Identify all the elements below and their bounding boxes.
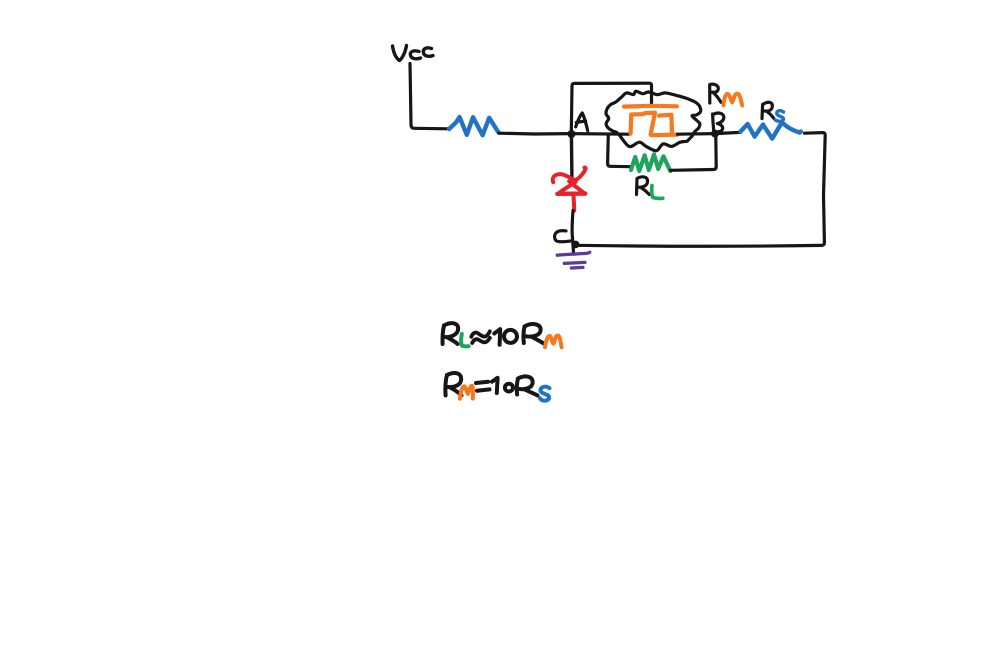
annotation formula line 2: RM = 10 RS — [445, 373, 549, 401]
wire node A up, across top, and down into memristor package — [571, 83, 651, 133]
formula2 S (blue subscript) — [540, 387, 550, 401]
zener diode (red) triangle base — [557, 191, 585, 196]
wire lower loop left (from main wire down to RL) — [608, 135, 631, 167]
formula1 L (green subscript) — [461, 334, 468, 346]
formula1 digit 0 — [503, 329, 517, 343]
node C junction dot — [572, 241, 580, 249]
memristor RM symbol (orange square-wave element) — [624, 106, 677, 135]
node B junction dot — [711, 130, 719, 138]
label RM (M orange subscript) — [724, 94, 743, 106]
formula1 R (black) — [523, 324, 543, 343]
wire zener to node C — [572, 211, 574, 255]
formula2 R (black) — [517, 376, 538, 395]
wire node A down to zener — [570, 134, 574, 177]
power label Vcc — [393, 46, 434, 61]
zener diode (red) anode lead — [572, 195, 577, 211]
wire memristor to node B to RS — [678, 132, 741, 134]
zener diode (red) triangle right leg — [569, 181, 584, 192]
zener diode (red) cathode swoosh bar — [553, 168, 586, 183]
formula1 digit 1 — [494, 329, 500, 345]
formula2 digit 1 — [492, 378, 498, 393]
ground symbol (purple) — [557, 252, 590, 268]
formula2 digit 0 — [505, 384, 513, 392]
node A label — [576, 113, 588, 131]
wire R to node A continuing to memristor — [499, 133, 629, 134]
formula1 M (orange subscript) — [545, 335, 562, 347]
memristor package outline (hand-drawn cloud blob) — [606, 91, 701, 151]
formula2 M (orange subscript) — [460, 386, 473, 399]
label RL (R black) — [637, 177, 650, 195]
formula2 equals sign — [476, 382, 490, 391]
label RS (R black) — [762, 102, 774, 118]
label RS (s blue subscript) — [775, 111, 783, 122]
node C label — [555, 231, 572, 242]
wire Vcc to R (vertical drop and bend) — [410, 64, 449, 129]
formula1 R (black) — [443, 323, 459, 344]
node A junction dot — [568, 130, 576, 138]
wire lower loop right (from RL up to node B) — [671, 136, 717, 171]
node B label — [713, 113, 724, 132]
resistor (blue, unlabeled input resistor) — [449, 117, 499, 135]
resistor RL (green) — [631, 154, 670, 171]
zener diode (red) triangle left leg — [560, 182, 576, 192]
label RL (L green subscript) — [652, 186, 663, 199]
annotation formula line 1: RL ≈ 10 RM — [443, 323, 562, 347]
formula1 approx sign — [471, 331, 490, 343]
formula2 R (black) — [445, 373, 461, 395]
label RM (R black) — [710, 84, 721, 103]
resistor RS (blue) — [741, 122, 801, 138]
wire RS right, down right side, along bottom to node C — [576, 133, 825, 247]
